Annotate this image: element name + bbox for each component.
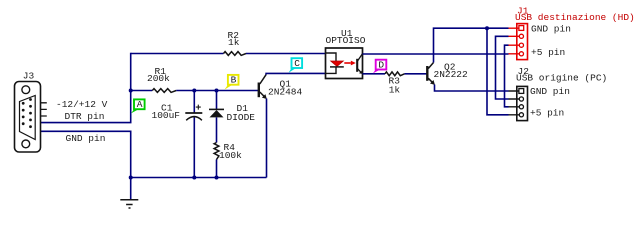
- wire: opto emitter to R3 (node D): [363, 73, 386, 75]
- junction D1 top: [215, 89, 219, 93]
- transistor Q2 2N2222: [426, 66, 428, 81]
- node A callout: [131, 109, 138, 113]
- resistor R3: [385, 72, 405, 76]
- svg-text:GND pin: GND pin: [531, 24, 571, 35]
- wire: node A row (base row): [131, 90, 153, 92]
- wire: bottom ground rail: [131, 177, 267, 179]
- svg-text:A: A: [137, 99, 143, 110]
- svg-text:-12/+12 V: -12/+12 V: [56, 99, 108, 110]
- U1 coupling arrow: [344, 62, 351, 64]
- junction R4 bottom: [215, 176, 219, 180]
- J3 pin stubs: [41, 103, 47, 116]
- svg-text:100k: 100k: [219, 150, 242, 161]
- wire: top rail right from opto collector to J1 +5 pin: [363, 53, 509, 55]
- svg-text:USB destinazione (HD): USB destinazione (HD): [515, 12, 635, 23]
- junction C1 bottom: [192, 176, 196, 180]
- optoisolator U1: [326, 48, 363, 79]
- wire: ground stem: [130, 178, 132, 200]
- resistor R1: [152, 89, 176, 93]
- svg-text:USB origine (PC): USB origine (PC): [516, 72, 607, 83]
- resistor R2: [224, 52, 247, 56]
- svg-text:GND pin: GND pin: [66, 133, 106, 144]
- wire: Q1 emitter down to ground rail: [266, 99, 268, 178]
- wire: top rail from node A vertical to R2 to optoisolator: [131, 53, 224, 55]
- node B callout: [225, 85, 233, 90]
- svg-text:1k: 1k: [228, 37, 240, 48]
- junction C1 top: [192, 89, 196, 93]
- ground symbol: [120, 199, 138, 201]
- svg-text:2N2484: 2N2484: [268, 86, 303, 97]
- U1 phototransistor: [356, 59, 358, 72]
- svg-text:B: B: [231, 75, 237, 86]
- U1 LED cathode bar: [330, 66, 344, 68]
- wire: J1 pin2 to J2 pin2: [496, 36, 509, 99]
- svg-text:2N2222: 2N2222: [434, 69, 469, 80]
- wire: GND pin wire from J3 down to ground rail: [41, 131, 131, 177]
- svg-text:100uF: 100uF: [152, 110, 181, 121]
- svg-text:1k: 1k: [389, 84, 401, 95]
- wire: J1 pin3 to J2 pin3: [505, 45, 509, 107]
- junction node A: [129, 89, 133, 93]
- svg-text:C: C: [294, 58, 300, 69]
- svg-text:DTR pin: DTR pin: [65, 111, 105, 122]
- wire: left vertical rail (DTR riser, node A): [41, 53, 131, 123]
- svg-text:D: D: [378, 60, 384, 71]
- capacitor C1: [193, 91, 195, 113]
- connector J2 USB origine: [509, 86, 528, 120]
- node D callout: [373, 70, 380, 74]
- junction on J1 GND wire: [485, 26, 489, 30]
- svg-text:+5 pin: +5 pin: [531, 47, 565, 58]
- U1 LED anode lead: [326, 53, 337, 61]
- diode D1: [216, 91, 218, 110]
- wire: vertical from junction to J2 +5 pin: [487, 28, 509, 115]
- svg-text:J3: J3: [23, 70, 35, 81]
- wire: Q1 collector to opto (node C): [266, 73, 325, 74]
- connector J1 USB destinazione: [509, 24, 528, 60]
- transistor Q1 2N2484: [258, 83, 260, 98]
- U1 LED cathode lead: [326, 67, 337, 74]
- svg-text:200k: 200k: [147, 73, 170, 84]
- wire: R3 to Q2 base: [405, 73, 427, 75]
- svg-text:OPTOISO: OPTOISO: [326, 35, 366, 46]
- svg-text:+5 pin: +5 pin: [530, 107, 564, 118]
- wire: Q2 emitter to J2 GND pin: [435, 85, 509, 92]
- U1 LED triangle: [331, 61, 344, 66]
- node C callout: [289, 68, 296, 73]
- resistor R4: [214, 143, 219, 160]
- wire: Q2 collector riser to J1 GND pin: [434, 28, 509, 62]
- junction ground rail left: [129, 176, 133, 180]
- svg-text:DIODE: DIODE: [227, 112, 256, 123]
- svg-text:GND pin: GND pin: [530, 86, 570, 97]
